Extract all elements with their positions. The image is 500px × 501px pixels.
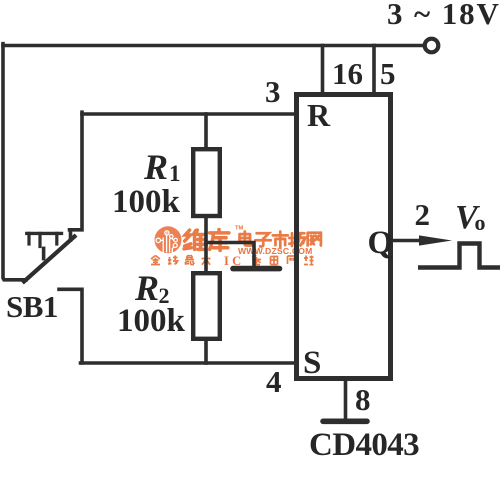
wire: pin5 lead <box>372 46 376 94</box>
svg-text:R: R <box>143 147 168 187</box>
svg-text:4: 4 <box>266 364 282 399</box>
ground (mid, at R1/R2 junction) <box>233 266 280 272</box>
svg-text:o: o <box>475 210 486 235</box>
svg-text:16: 16 <box>332 56 363 91</box>
svg-text:8: 8 <box>355 382 371 417</box>
wire: Q output pin2 lead <box>394 239 430 243</box>
switch SB1 button bar <box>27 232 62 235</box>
watermark text 电子市场网 <box>240 231 321 247</box>
wire: vertical from pin3 wire down to switch right contact <box>70 112 83 230</box>
wire: junction to ground branch <box>206 243 254 267</box>
watermark text 维库 <box>184 230 229 251</box>
wire: bottom rail to S pin <box>81 361 295 365</box>
wire: R2 top lead <box>204 243 208 275</box>
wire: switch arm diagonal SB1 <box>24 237 75 282</box>
wire: pin16 lead <box>321 46 325 94</box>
switch SB1 fixed contact tick right <box>69 230 73 240</box>
ground (pin 8) <box>323 418 367 424</box>
op-amp ic CD4043 box U1 <box>297 95 391 379</box>
svg-text:R: R <box>134 268 159 308</box>
switch SB1 movable contact tick <box>42 248 46 258</box>
wire: R1 bottom lead to junction <box>204 216 208 244</box>
svg-text:3: 3 <box>265 74 281 109</box>
svg-text:1: 1 <box>169 161 181 186</box>
watermark text 全球最大IC采购网站 <box>151 256 314 265</box>
svg-text:100k: 100k <box>112 184 181 220</box>
svg-text:CD4043: CD4043 <box>309 427 419 463</box>
svg-text:TM: TM <box>235 226 244 232</box>
svg-text:S: S <box>303 345 321 381</box>
switch SB1 bar tick 2 <box>38 233 41 246</box>
svg-text:5: 5 <box>380 56 396 91</box>
svg-text:3 ~ 18V: 3 ~ 18V <box>387 0 500 31</box>
svg-text:100k: 100k <box>117 303 186 339</box>
wire: top supply rail <box>3 44 423 48</box>
wire: R1 top lead <box>204 114 208 149</box>
switch SB1 bar tick 1 <box>27 233 30 244</box>
waveform Vo pulse <box>418 244 500 268</box>
svg-text:WWW.DZSC.COM: WWW.DZSC.COM <box>238 246 312 256</box>
resistor R1 <box>193 149 220 216</box>
wire: R2 bottom lead <box>204 339 208 363</box>
resistor R2 <box>193 273 220 339</box>
watermark logo circle <box>155 226 182 253</box>
svg-text:2: 2 <box>415 197 431 232</box>
wire: SB1 lower lead to bottom rail <box>59 289 82 363</box>
node: supply terminal circle <box>425 39 439 53</box>
wire: output arrowhead <box>419 235 452 245</box>
wire: pin3 horizontal to R input <box>82 112 294 116</box>
switch SB1 bar tick 3 <box>55 233 58 244</box>
svg-text:R: R <box>307 97 331 133</box>
wire: left rail down to switch arm <box>3 44 26 280</box>
svg-text:Q: Q <box>368 225 394 261</box>
wire: pin8 lead to ground <box>344 380 348 420</box>
svg-text:SB1: SB1 <box>6 289 58 324</box>
